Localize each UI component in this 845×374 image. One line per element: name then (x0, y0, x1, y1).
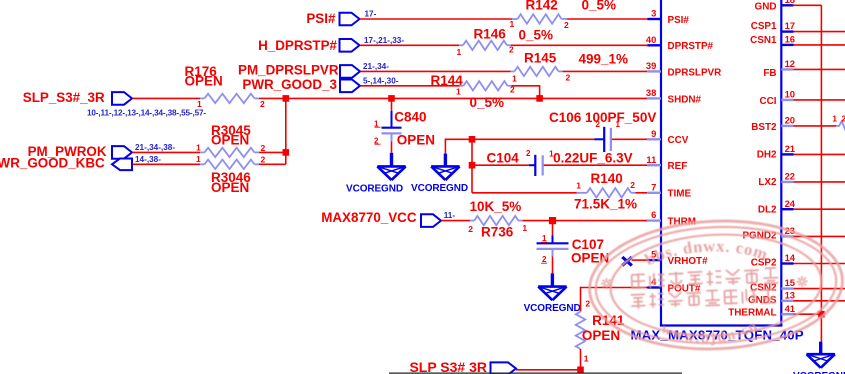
svg-text:BST2: BST2 (751, 122, 777, 133)
wire pin 24 to edge (794, 208, 845, 210)
svg-text:OPEN: OPEN (211, 132, 249, 147)
net label 5-,14-,30- (363, 76, 399, 85)
port MAX8770_VCC (421, 214, 441, 227)
wire THERMAL to bus (794, 313, 822, 315)
svg-text:TIME: TIME (668, 189, 692, 200)
resistor R736 (468, 199, 527, 239)
wire VRHOT# stub (632, 259, 648, 261)
net label 17-,21-,33- (364, 36, 404, 45)
wire R140 to pin 7 (636, 192, 648, 194)
junction REF (469, 162, 476, 169)
svg-text:3: 3 (651, 8, 656, 19)
svg-text:2: 2 (526, 149, 531, 158)
net name PWR_GOOD_KBC (0, 155, 105, 170)
svg-text:R145: R145 (524, 50, 557, 65)
wire pin 16 to edge (794, 44, 845, 46)
watermark stamp (587, 216, 845, 355)
svg-text:20: 20 (785, 115, 795, 126)
pin 39 DPRSLPVR (646, 60, 721, 78)
wire SLP_S3#_3R to R176 (133, 97, 201, 99)
svg-text:21: 21 (785, 143, 795, 154)
svg-text:C107: C107 (572, 237, 604, 252)
pin 22 LX2 (758, 171, 795, 188)
svg-text:PM_DPRSLPVR: PM_DPRSLPVR (238, 63, 339, 78)
svg-text:0_5%: 0_5% (470, 95, 505, 110)
svg-text:10: 10 (785, 89, 795, 100)
svg-text:1: 1 (584, 354, 589, 364)
svg-text:OPEN: OPEN (397, 132, 435, 147)
svg-text:2: 2 (260, 99, 265, 109)
op-amp IC MAX_MAX8770_TQFN_40P outline (660, 0, 783, 326)
svg-text:OPEN: OPEN (185, 73, 223, 88)
svg-text:CSN1: CSN1 (750, 35, 777, 46)
svg-text:C840: C840 (394, 109, 426, 124)
pin 41 THERMAL (728, 303, 795, 319)
svg-text:14-,38-: 14-,38- (135, 155, 161, 164)
wire CCV junction column (471, 139, 473, 193)
svg-text:1: 1 (549, 149, 554, 158)
port PWR_GOOD_KBC (112, 159, 132, 171)
svg-text:11: 11 (646, 154, 656, 165)
wire pin 22 to edge (794, 181, 845, 183)
wire PSI# to R142 (360, 18, 512, 20)
wire pin 13 to edge (794, 300, 845, 302)
wire R145 to pin 39 (563, 70, 648, 72)
wire R141 to SLP net (580, 349, 582, 370)
svg-text:1: 1 (457, 47, 462, 57)
svg-text:DPRSLPVR: DPRSLPVR (668, 67, 722, 78)
resistor R176 (185, 64, 266, 109)
wire PWR_GOOD_3 to R144 (361, 85, 460, 87)
capacitor C106 (549, 110, 656, 152)
net label 11- (444, 211, 456, 220)
capacitor C840 (374, 98, 435, 152)
net label 17- (365, 9, 377, 18)
ground VCOREGND under C107 (538, 273, 566, 300)
wire pin 10 to edge (794, 99, 845, 101)
svg-text:OPEN: OPEN (211, 180, 249, 195)
net label 21-,34- (363, 62, 389, 71)
svg-text:DL2: DL2 (758, 204, 777, 215)
svg-text:2: 2 (564, 20, 569, 30)
wire R142 to pin 3 (567, 18, 647, 20)
svg-text:1: 1 (196, 154, 201, 164)
svg-text:FB: FB (763, 68, 776, 79)
svg-text:2: 2 (630, 180, 635, 190)
pin 11 REF (646, 154, 687, 172)
svg-text:9: 9 (651, 128, 656, 139)
junction R3045 (283, 149, 290, 156)
svg-text:2: 2 (566, 73, 571, 83)
svg-text:SLP_S3#_3R: SLP_S3#_3R (23, 90, 105, 105)
junction SLP_S3# column (283, 95, 290, 102)
svg-text:R736: R736 (481, 224, 514, 239)
svg-text:LX2: LX2 (758, 177, 777, 188)
svg-text:SHDN#: SHDN# (668, 94, 702, 105)
label VCOREGND 1 (346, 183, 403, 194)
svg-text:0_5%: 0_5% (582, 0, 617, 12)
svg-text:PWR_GOOD_3: PWR_GOOD_3 (242, 77, 337, 92)
label MAX_MAX8770_TQFN_40P (631, 327, 804, 342)
svg-text:www.bjdn.cn: www.bjdn.cn (658, 317, 762, 349)
svg-text:17-: 17- (365, 9, 377, 18)
net label 21-,34-,38- (135, 143, 175, 152)
svg-text:REF: REF (668, 161, 688, 172)
net label 10-...57- (87, 108, 206, 117)
svg-text:22: 22 (785, 171, 795, 182)
svg-text:10K_5%: 10K_5% (470, 199, 522, 214)
wire PWR_GOOD_KBC to R3046 (133, 163, 201, 165)
wire POUT# to R141 (581, 287, 648, 312)
port PSI# (340, 13, 360, 26)
svg-text:18: 18 (785, 0, 795, 5)
pin 23 PGND2 (742, 225, 795, 242)
svg-text:VCOREGND: VCOREGND (524, 303, 581, 314)
svg-text:VCOREGND: VCOREGND (411, 183, 468, 194)
wire pin 17 to edge (794, 31, 845, 33)
label VCOREGND 3 (524, 303, 581, 314)
net name SLP S3# 3R bottom (409, 359, 487, 374)
resistor R145 (511, 50, 629, 83)
port PM_DPRSLPVR (340, 65, 360, 78)
svg-text:21-,34-,38-: 21-,34-,38- (135, 143, 175, 152)
resistor R3045 (196, 123, 266, 157)
port H_DPRSTP# (340, 39, 360, 52)
svg-text:14: 14 (785, 252, 796, 263)
net name PM_DPRSLPVR (238, 63, 339, 78)
svg-text:1: 1 (576, 180, 581, 190)
wire GND to bus (793, 4, 822, 6)
wire REF junction to C104 (472, 164, 529, 166)
ground VCOREGND 2 (431, 154, 459, 180)
capacitor C104 (487, 149, 633, 176)
wire CCV to ground corner (445, 139, 472, 154)
pin 4 POUT# (647, 276, 701, 294)
svg-text:39: 39 (646, 60, 656, 71)
wire pin 15 to edge (794, 288, 845, 290)
svg-text:R142: R142 (526, 0, 558, 12)
svg-text:10-,11-,12-,13-,14-,34-,38-,55: 10-,11-,12-,13-,14-,34-,38-,55-,57- (87, 108, 206, 117)
svg-text:16: 16 (785, 34, 795, 45)
svg-text:71.5K_1%: 71.5K_1% (574, 196, 637, 211)
pin 15 CSN2 (750, 277, 795, 294)
wire pin 23 to edge (794, 235, 845, 237)
svg-text:13: 13 (785, 289, 795, 300)
svg-text:H_DPRSTP#: H_DPRSTP# (258, 38, 337, 53)
ground VCOREGND bottom right (807, 342, 835, 368)
svg-text:1: 1 (512, 74, 517, 84)
junction SLP bottom (577, 367, 584, 374)
svg-text:DH2: DH2 (757, 150, 777, 161)
capacitor C107 (537, 221, 610, 274)
svg-text:1: 1 (456, 86, 461, 96)
svg-text:PWR_GOOD_KBC: PWR_GOOD_KBC (0, 155, 105, 170)
svg-text:0_5%: 0_5% (519, 27, 554, 42)
pin 7 TIME (647, 181, 691, 199)
wire SLP S3# 3R (516, 369, 578, 371)
svg-text:MAX8770_VCC: MAX8770_VCC (321, 210, 417, 225)
svg-text:0.22UF_6.3V: 0.22UF_6.3V (553, 150, 633, 165)
svg-text:CCI: CCI (759, 96, 776, 107)
sheet border line (389, 372, 682, 374)
svg-text:PSI#: PSI# (668, 15, 690, 26)
svg-text:1: 1 (197, 99, 202, 109)
wire pin 21 to edge (794, 153, 845, 155)
svg-text:2: 2 (842, 114, 845, 124)
svg-text:PSI#: PSI# (306, 11, 336, 26)
svg-text:499_1%: 499_1% (579, 51, 629, 66)
pin 5 VRHOT# (647, 249, 708, 267)
pin 20 BST2 (751, 115, 795, 134)
pin 3 PSI# (647, 8, 689, 26)
junction C840 tap (388, 95, 395, 102)
wire R146 to pin 40 (511, 44, 647, 46)
wire SHDN# net (259, 97, 647, 99)
svg-text:2: 2 (261, 155, 266, 165)
svg-text:1: 1 (510, 19, 515, 29)
pin 18 GND (755, 0, 795, 13)
wire BST2 (794, 125, 837, 127)
wire R736 to pin 6 (523, 220, 648, 222)
port SLP_S3#_3R (112, 92, 132, 105)
svg-text:2: 2 (509, 45, 514, 55)
svg-text:1: 1 (616, 120, 621, 129)
junction CCV (469, 136, 476, 143)
pin 10 CCI (759, 89, 795, 107)
svg-text:CCV: CCV (668, 135, 689, 146)
svg-text:SLP S3# 3R: SLP S3# 3R (409, 359, 487, 374)
svg-text:5-,14-,30-: 5-,14-,30- (363, 76, 399, 85)
pin 13 GNDS (748, 289, 795, 305)
wire MAX8770_VCC to R736 (442, 220, 471, 222)
svg-text:R140: R140 (591, 171, 623, 186)
pin 9 CCV (647, 128, 688, 146)
net name PWR_GOOD_3 (242, 77, 337, 92)
net name MAX8770_VCC (321, 210, 417, 225)
wire column to R140 (472, 192, 581, 194)
svg-text:DPRSTP#: DPRSTP# (668, 41, 714, 52)
resistor R3046 (196, 154, 266, 195)
net name H_DPRSTP# (258, 38, 337, 53)
wire PM_DPRSLPVR to R145 (361, 70, 511, 72)
resistor at BST2 edge (partial) (832, 114, 845, 131)
svg-text:C106 100PF_50V: C106 100PF_50V (549, 110, 656, 125)
svg-text:C104: C104 (487, 150, 520, 165)
pin 6 THRM (647, 209, 696, 227)
wire vertical to R3045/R3046 (285, 98, 287, 164)
svg-text:17-,21-,33-: 17-,21-,33- (364, 36, 404, 45)
svg-text:38: 38 (646, 87, 656, 98)
svg-text:R146: R146 (474, 26, 507, 41)
svg-text:VCOREGND: VCOREGND (346, 183, 403, 194)
svg-text:2: 2 (596, 120, 601, 129)
svg-text:OPEN: OPEN (582, 328, 620, 343)
wire pin 12 to edge (794, 68, 845, 70)
svg-text:7: 7 (651, 181, 656, 192)
svg-text:6: 6 (651, 209, 656, 220)
pin 17 CSP1 (751, 20, 795, 32)
net label 14-,38- (135, 155, 161, 164)
svg-text:THERMAL: THERMAL (728, 308, 776, 319)
label VCOREGND 4 (793, 371, 845, 374)
wire R3045 to column (259, 151, 286, 153)
net name PSI# (306, 11, 336, 26)
svg-text:GND: GND (755, 2, 777, 13)
svg-text:2: 2 (585, 299, 590, 309)
resistor R142 (510, 0, 617, 30)
junction THERMAL (818, 311, 825, 318)
svg-text:24: 24 (785, 198, 796, 209)
resistor R146 (457, 26, 554, 57)
junction R144/SHDN# (536, 95, 543, 102)
wire C104 to pin 11 (544, 164, 648, 166)
svg-text:17: 17 (785, 20, 795, 31)
resistor R141 (576, 299, 625, 364)
pin 16 CSN1 (750, 34, 795, 47)
pin 40 DPRSTP# (646, 34, 714, 52)
svg-text:12: 12 (785, 58, 795, 69)
resistor R144 (431, 73, 516, 110)
junction THRM/C107 (549, 217, 556, 224)
svg-text:21-,34-: 21-,34- (363, 62, 389, 71)
svg-text:1: 1 (522, 223, 527, 233)
net name SLP_S3#_3R (23, 90, 105, 105)
label VCOREGND 2 (411, 183, 468, 194)
pin 14 CSP2 (751, 252, 796, 269)
svg-text:2: 2 (468, 224, 473, 234)
svg-text:1: 1 (196, 142, 201, 152)
wire right bus vertical (820, 5, 822, 341)
wire R3046 to column (259, 163, 286, 165)
pin 21 DH2 (757, 143, 795, 161)
no-connect X on VRHOT# (622, 257, 632, 266)
port SLP S3# 3R bottom (491, 362, 517, 374)
svg-text:CSP1: CSP1 (751, 21, 777, 32)
port PWR_GOOD_3 (340, 80, 360, 93)
wire PM_PWROK to R3045 (133, 151, 201, 153)
resistor R140 (574, 171, 637, 211)
net name PM_PWROK (28, 144, 107, 159)
svg-text:40: 40 (646, 34, 656, 45)
svg-text:41: 41 (785, 303, 795, 314)
svg-text:15: 15 (785, 277, 795, 288)
port PM_PWROK (112, 146, 132, 159)
wire R144 to SHDN# net (512, 85, 540, 98)
wire pin 14 to edge (794, 263, 845, 265)
svg-text:1: 1 (832, 114, 837, 124)
ground VCOREGND under C840 (377, 153, 405, 180)
pin 12 FB (763, 58, 795, 79)
wire C106 to pin 9 (612, 138, 647, 140)
wire H_DPRSTP# to R146 (360, 44, 459, 46)
pin 24 DL2 (758, 198, 796, 216)
pin 38 SHDN# (646, 87, 702, 105)
wire CCV to C106 (472, 138, 594, 140)
svg-text:11-: 11- (444, 211, 456, 220)
